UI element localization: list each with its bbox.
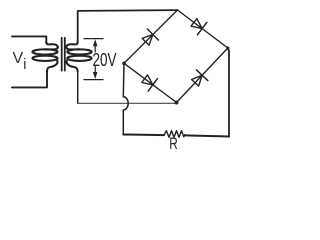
wire bottom rail left of resistor (123, 134, 164, 137)
wire hop crossover (123, 97, 128, 110)
transformer T1 primary winding (32, 42, 57, 71)
node L (122, 62, 126, 66)
wire bridge edge B-R (177, 48, 228, 103)
wire primary top (12, 36, 46, 42)
wire secondary bottom riser (77, 71, 79, 103)
dimension 20V bottom tick (84, 79, 103, 81)
wire bridge edge L-T (124, 10, 178, 63)
wire bottom rail right of resistor (185, 135, 229, 136)
node B (175, 101, 179, 105)
wire primary bottom (12, 71, 47, 87)
node R (226, 46, 229, 49)
wire secondary top to bridge (78, 10, 178, 42)
dimension 20V top tick (84, 38, 103, 40)
wire right vertical (R to bottom rail) (228, 48, 229, 137)
diode D2 (191, 19, 207, 35)
wire left vertical upper (L to hop) (122, 63, 125, 97)
svg-text:R: R (169, 135, 178, 153)
wire secondary bottom to bridge (78, 102, 176, 104)
wire bridge edge T-R (178, 10, 228, 48)
svg-text:Vi: Vi (13, 50, 27, 73)
svg-text:20V: 20V (93, 50, 117, 70)
wire bridge edge L-B (124, 63, 177, 102)
dimension 20V up arrow (94, 44, 96, 52)
transformer T1 core (61, 38, 63, 71)
diode D3 (142, 75, 158, 91)
dimension 20V down arrow (94, 67, 96, 75)
diode D1 (142, 29, 158, 45)
transformer T1 secondary winding (66, 42, 92, 71)
resistor R (164, 131, 185, 138)
wire left vertical lower (hop to bottom rail) (122, 110, 124, 135)
diode D4 (192, 70, 208, 86)
